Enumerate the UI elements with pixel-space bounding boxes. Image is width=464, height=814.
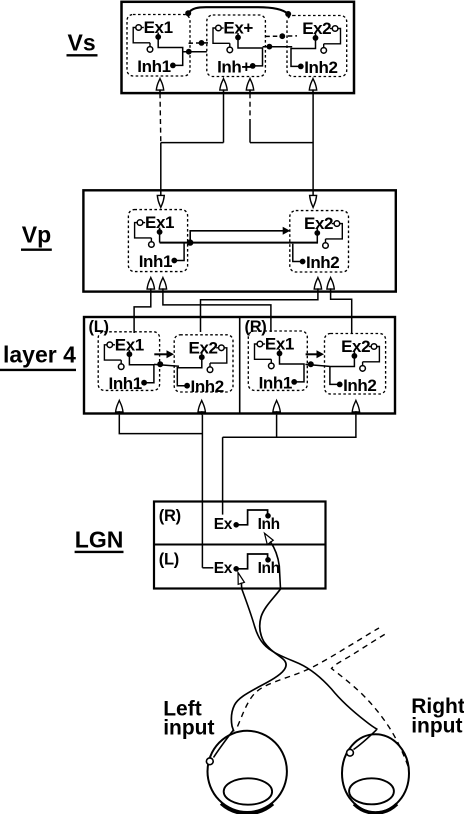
arrowhead into Vs-plus right <box>246 79 253 94</box>
label Ex1 of L4-R-1 <box>265 335 294 354</box>
label Inh2 of L4-L-2 <box>191 377 224 396</box>
excitatory synapse dot from Ex+ <box>235 35 241 41</box>
junction dot Vs-1/Vs-plus lower <box>186 49 192 55</box>
left eye lens <box>224 778 272 804</box>
label Inh1 of L4-L-1 <box>109 374 142 393</box>
cortical area Vs box <box>122 2 355 93</box>
excitatory synapse dot from Ex2 <box>314 230 320 236</box>
wire Ex1 to Inh1 (Vs-1) <box>158 33 183 66</box>
junction dot Vs-1/Vs-plus upper <box>199 40 205 46</box>
wire Inh2 to Ex2 feedback hook <box>326 224 343 239</box>
excitatory dot on Inh (LGN-L relay) <box>265 557 271 563</box>
inhibitory synapse circle on Ex1 <box>136 25 144 31</box>
excitatory synapse dot on Inh+ <box>250 63 256 69</box>
inhibitory synapse circle above Inh2 <box>360 362 366 371</box>
svg-text:Ex2: Ex2 <box>341 337 370 356</box>
svg-text:(R): (R) <box>159 507 181 525</box>
arrowhead into Vp left unit <box>157 195 164 207</box>
label Inh+ of Vs-plus <box>217 57 251 76</box>
arrowhead into L4-L-2 <box>198 401 205 415</box>
wire L4-L-1 down join <box>119 415 202 434</box>
excitatory synapse dot on Inh1 <box>141 380 147 386</box>
arrowhead into Vp-2 left <box>314 278 321 293</box>
right eye bottom heavy arc <box>354 804 397 813</box>
neuron pair unit Vs-plus (dashed box) <box>207 15 266 77</box>
area label LGN <box>75 527 124 553</box>
label Inh of LGN-L relay <box>258 560 280 577</box>
svg-text:Inh1: Inh1 <box>109 374 142 393</box>
svg-text:Ex: Ex <box>214 516 233 533</box>
excitatory synapse dot on Inh1 <box>291 379 297 385</box>
LGN row divider <box>154 544 326 546</box>
wire Vs right riser / down into Vp <box>312 93 314 196</box>
wire layer4-L-Ex1 up to Vp <box>134 292 151 333</box>
wire Vs-1 to Vs-plus lower <box>183 51 207 53</box>
svg-text:Inh2: Inh2 <box>191 377 224 396</box>
wire Vp lower long link Ex1-Ex2 <box>160 242 318 244</box>
junction dot Vp lower link <box>187 239 193 245</box>
wire Vp to Vs feedback left (dashed) <box>159 93 162 142</box>
label Ex of LGN-L relay <box>214 560 233 577</box>
inhibitory synapse circle above Inh1 <box>269 359 275 368</box>
excitatory synapse dot from Ex2 <box>313 35 319 41</box>
wire L4-R-1 down join <box>223 415 277 437</box>
svg-text:Ex2: Ex2 <box>304 214 333 233</box>
wire Vs-plus to Vs-2 lower <box>263 46 293 48</box>
wire right-eye fiber inside LGN <box>240 583 242 590</box>
arrowhead into L4-L-1 <box>116 401 123 415</box>
inhibitory synapse circle above Inh2 <box>207 363 213 372</box>
svg-text:Ex2: Ex2 <box>189 338 218 357</box>
excitatory synapse dot from Ex2 <box>199 354 205 360</box>
right eye fiber inside eye <box>354 730 377 750</box>
excitatory synapse dot on Inh1 <box>170 63 176 69</box>
wire Inh1 to Ex1 feedback hook <box>135 223 152 238</box>
arrowhead into Vp right unit <box>310 195 317 207</box>
left eye bottom heavy arc <box>221 804 273 814</box>
excitatory synapse dot on Inh2 <box>337 382 343 388</box>
wire Inh1 to Ex1 feedback hook <box>255 344 272 359</box>
neuron pair unit L4-R-1 (dashed box) <box>248 331 307 390</box>
label Ex1 of Vs-1 <box>144 18 173 37</box>
excitatory synapse dot from Ex1 <box>126 351 132 357</box>
svg-text:Inh+: Inh+ <box>217 57 251 76</box>
inhibitory synapse circle above Inh2 <box>323 239 329 248</box>
excitatory dot from Ex (LGN-R relay) <box>233 522 239 528</box>
excitatory synapse dot on Inh2 <box>300 259 306 265</box>
svg-text:Inh2: Inh2 <box>306 253 339 272</box>
wire left-eye fiber inside LGN <box>270 542 280 590</box>
inhibitory synapse circle on Ex2 <box>216 345 224 351</box>
wire Vp to Vs feedback right (dashed) <box>249 93 251 142</box>
neuron pair unit Vp-2 (dashed box) <box>290 211 349 272</box>
arrowhead into Vs-2 <box>309 79 316 94</box>
neuron pair unit L4-L-2 (dashed box) <box>174 335 233 392</box>
junction dot Vs-plus/Vs-2 lower <box>267 44 273 50</box>
wire Ex2 to Inh2 (L4-L-2) <box>177 353 202 386</box>
svg-text:Vs: Vs <box>68 30 96 56</box>
wire Ex1 axon down (Vp-1) <box>159 228 161 243</box>
cortical layer 4 box <box>84 317 395 414</box>
label Inh2 of Vp-2 <box>306 253 339 272</box>
optic nerve left eye to LGN-R (crossed, solid) <box>231 589 286 732</box>
wire layer4-L-Ex2 up to Vp <box>201 292 318 332</box>
excitatory synapse dot from Ex1 <box>277 351 283 357</box>
LGN box <box>154 502 326 589</box>
wire Ex to Inh hook (LGN-L relay) <box>236 554 267 569</box>
junction dot on Vs-2 top <box>285 11 291 17</box>
label (L) left-eye column <box>89 318 109 336</box>
junction dot L4-L link <box>157 361 163 367</box>
wire Vp upper long link <box>190 231 283 243</box>
arrowhead into L4-R-2 <box>352 401 359 415</box>
label Ex of LGN-R relay <box>214 516 233 533</box>
wire right-eye trunk to LGN <box>222 437 224 514</box>
wire Ex1 to Inh1 (L4-L-1) <box>129 350 154 383</box>
svg-text:layer 4: layer 4 <box>3 341 76 367</box>
arrowhead into Vs-1 <box>156 79 163 94</box>
wire Ex1 to Inh1 (L4-R-1) <box>280 349 305 382</box>
junction dot Vs-plus/Vs-2 upper <box>279 33 285 39</box>
wire L4-L1 to L4-L2 upper <box>154 353 167 355</box>
wire Vs-Vp right crossbar <box>250 142 313 144</box>
wire Inh+ to Ex+ feedback hook <box>213 28 230 43</box>
excitatory synapse dot on Inh1 <box>171 258 177 264</box>
arrowhead Vp upper link into Ex2 <box>283 227 291 235</box>
label Ex2 of L4-L-2 <box>189 338 218 357</box>
svg-text:Vp: Vp <box>22 222 51 248</box>
inhibitory synapse circle on Ex1 <box>107 342 115 348</box>
wire Vs Ex1-Ex2 top arc <box>188 7 288 14</box>
label (L) LGN row <box>159 551 179 569</box>
wire Inh2 to Ex2 feedback hook <box>210 348 227 363</box>
left eye outline <box>208 731 287 812</box>
neuron pair unit Vp-1 (dashed box) <box>128 210 187 272</box>
wire Ex2 to Inh2 (Vs-2) <box>291 34 316 67</box>
left eye optic disc circle <box>206 758 213 765</box>
inhibitory synapse circle on Ex1 <box>257 341 265 347</box>
inhibitory synapse circle on Ex+ <box>216 25 224 31</box>
svg-text:Inh1: Inh1 <box>137 57 170 76</box>
wire L4-R1 to L4-R2 upper <box>306 353 317 355</box>
svg-text:(L): (L) <box>159 551 179 569</box>
excitatory dot from Ex (LGN-L relay) <box>233 566 239 572</box>
wire Vs-plus to Vs-2 (dash-dot) <box>265 35 297 38</box>
wire Ex to Inh hook (LGN-R relay) <box>236 510 267 525</box>
label Inh1 of Vp-1 <box>139 252 172 271</box>
arrowhead into Vp-1 right <box>159 278 166 293</box>
uncrossed pathway from right eye (dashed) <box>332 633 409 766</box>
svg-text:Inh1: Inh1 <box>139 252 172 271</box>
label Ex2 of Vs-2 <box>302 19 331 38</box>
neuron pair unit L4-L-1 (dashed box) <box>98 332 159 391</box>
inhibitory synapse circle above Inh1 <box>149 238 155 247</box>
svg-text:(R): (R) <box>245 318 267 336</box>
label Inh2 of L4-R-2 <box>343 376 376 395</box>
wire left-eye trunk hook to LGN-L Ex <box>202 567 213 569</box>
arrowhead retinal input to LGN-R Inh <box>265 533 274 544</box>
arrowhead retinal input to LGN-L Ex <box>238 573 244 585</box>
svg-text:(L): (L) <box>89 318 109 336</box>
wire Ex2 axon down (Vp-2) <box>316 229 318 244</box>
excitatory synapse dot on Inh2 <box>184 383 190 389</box>
arrowhead into Vp-2 right <box>327 278 334 293</box>
arrowhead L4-R1 to L4-R2 <box>317 350 325 358</box>
svg-text:input: input <box>411 715 462 738</box>
label (R) LGN row <box>159 507 181 525</box>
wire Ex2 to Inh2 (L4-R-2) <box>330 352 355 385</box>
inhibitory synapse circle on Ex2 <box>369 344 377 350</box>
label Ex2 of L4-R-2 <box>341 337 370 356</box>
svg-text:Inh1: Inh1 <box>259 373 292 392</box>
wire Ex+ to Inh+ (Vs-plus) <box>238 33 263 66</box>
wire Vs left riser <box>223 93 225 142</box>
wire L4-L1 to L4-L2 lower <box>154 364 179 366</box>
label Ex+ of Vs-plus <box>223 19 253 38</box>
svg-text:Inh2: Inh2 <box>304 58 337 77</box>
wire layer4-R-Ex2 up to Vp <box>331 292 352 333</box>
optic nerve right eye to LGN-L (crossed, solid) <box>242 589 378 730</box>
arrowhead into Vp-1 left <box>147 278 154 293</box>
neuron pair unit Vs-1 (dashed box) <box>127 15 190 77</box>
wire Inh1 to Ex1 feedback hook <box>104 345 121 360</box>
svg-text:input: input <box>163 717 214 740</box>
svg-text:LGN: LGN <box>75 527 124 553</box>
right eye lens <box>349 778 394 804</box>
wire left-eye trunk to LGN <box>201 415 203 568</box>
excitatory synapse dot from Ex2 <box>352 353 358 359</box>
excitatory synapse dot from Ex1 <box>157 229 163 235</box>
arrowhead L4-L1 to L4-L2 <box>167 350 175 358</box>
label (R) right-eye column <box>245 318 267 336</box>
wire Vs-Vp left crossbar <box>161 142 224 144</box>
inhibitory synapse circle on Ex2 <box>332 221 340 227</box>
svg-text:Ex2: Ex2 <box>302 19 331 38</box>
inhibitory synapse circle above Inh+ <box>227 43 233 52</box>
label Inh1 of L4-R-1 <box>259 373 292 392</box>
wire Inh1 output up-hook (Vp-1) <box>174 243 184 261</box>
inhibitory synapse circle on Ex1 <box>137 220 145 226</box>
wire L4-R1 to L4-R2 lower <box>305 364 329 366</box>
label Inh of LGN-R relay <box>258 516 280 533</box>
area label layer 4 <box>0 341 76 370</box>
wire Inh1 to Ex1 feedback hook <box>133 28 150 43</box>
wire layer4-R-Ex1 up to Vp <box>163 292 271 332</box>
excitatory synapse dot on Inh2 <box>298 64 304 70</box>
label Inh1 of Vs-1 <box>137 57 170 76</box>
svg-text:Inh: Inh <box>258 560 280 577</box>
right eye optic disc circle <box>347 749 354 756</box>
eye column divider in layer 4 <box>239 317 241 414</box>
uncrossed pathway from left eye (dashed) <box>238 628 380 727</box>
wire down into Vp left <box>160 143 162 197</box>
area label Vs <box>67 30 98 56</box>
label Inh2 of Vs-2 <box>304 58 337 77</box>
inhibitory synapse circle above Inh2 <box>321 44 327 53</box>
wire Inh2 to Ex2 feedback hook <box>363 347 380 362</box>
left eye fiber inside eye <box>214 730 234 758</box>
arrowhead into Vs-plus left <box>220 79 227 94</box>
inhibitory synapse circle on Ex2 <box>330 26 338 32</box>
svg-text:Inh2: Inh2 <box>343 376 376 395</box>
wire Inh2 output up-hook (Vp-2) <box>293 244 303 262</box>
excitatory synapse dot from Ex1 <box>155 34 161 40</box>
label Right input <box>411 695 464 737</box>
arrowhead into L4-R-1 <box>273 401 280 415</box>
wire Inh2 to Ex2 feedback hook <box>324 29 341 44</box>
junction dot L4-R link <box>308 361 314 367</box>
junction dot on Vs-1 top <box>185 10 191 16</box>
right eye outline <box>342 734 409 812</box>
svg-text:Ex: Ex <box>214 560 233 577</box>
svg-text:Inh: Inh <box>258 516 280 533</box>
label Ex1 of L4-L-1 <box>115 335 144 354</box>
label Left input <box>163 697 214 739</box>
neuron pair unit L4-R-2 (dashed box) <box>325 334 386 395</box>
excitatory dot on Inh (LGN-R relay) <box>265 513 271 519</box>
inhibitory synapse circle above Inh1 <box>147 43 153 52</box>
cortical area Vp box <box>83 190 395 291</box>
label Ex2 of Vp-2 <box>304 214 333 233</box>
wire L4-R-2 down join <box>277 415 356 437</box>
label Ex1 of Vp-1 <box>145 213 174 232</box>
neuron pair unit Vs-2 (dashed box) <box>287 16 347 77</box>
inhibitory synapse circle above Inh1 <box>118 360 124 369</box>
wire Vs-1 to Vs-plus (dash-dot) <box>189 42 210 44</box>
area label Vp <box>21 222 52 250</box>
